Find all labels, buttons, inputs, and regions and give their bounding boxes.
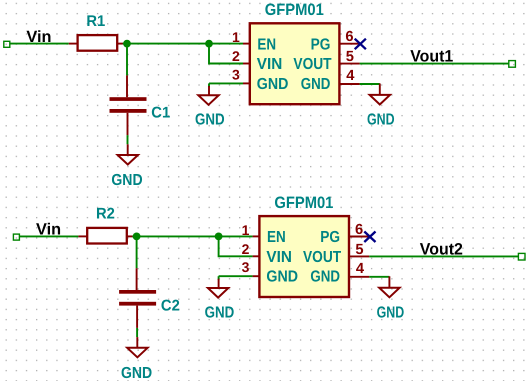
svg-text:Vout1: Vout1 xyxy=(410,48,453,66)
svg-text:R2: R2 xyxy=(96,206,115,223)
svg-text:C1: C1 xyxy=(151,105,170,122)
svg-text:Vout2: Vout2 xyxy=(420,240,463,258)
svg-text:R1: R1 xyxy=(86,13,105,30)
svg-text:C2: C2 xyxy=(161,297,180,314)
